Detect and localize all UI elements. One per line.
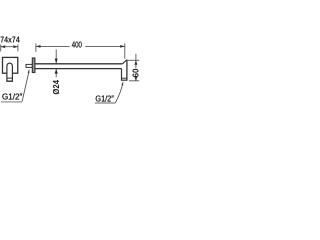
front view: arm tube with outlet drop seen end-on (stadium shape): [7, 63, 12, 81]
side view: outlet bottom cap: [121, 79, 127, 81]
leader G1/2 right arrowhead: [121, 81, 123, 85]
dimension 60: lower line segment: [135, 78, 137, 81]
front view: outlet end cap: [6, 80, 12, 82]
side view: outlet left edge: [121, 69, 123, 81]
dimension 74x74: line: [1, 46, 18, 48]
side view: wall supply stub G1/2: [26, 64, 32, 67]
dimension 74x74: right arrow: [13, 45, 18, 48]
dimension 74x74: left arrow: [1, 45, 6, 48]
dimension D24: lower line: [55, 69, 57, 77]
dimension 400: right extension line: [124, 43, 126, 58]
svg-text:G1/2″: G1/2″: [95, 95, 114, 104]
side view: arm tube bottom line: [35, 68, 121, 70]
dimension 400: line right segment: [85, 45, 125, 47]
leader G1/2 left line: [22, 72, 29, 102]
front view: outlet thread band: [7, 77, 12, 79]
svg-text:G1/2″: G1/2″: [2, 93, 22, 102]
dimension 400: right arrow: [120, 45, 125, 48]
front view: square escutcheon plate: [3, 57, 18, 73]
label G1/2 left underline: [1, 101, 22, 103]
dimension D24: lower arrow pointing up: [55, 69, 58, 74]
dimension D24: upper arrow pointing down: [55, 59, 58, 64]
side view: escutcheon plate (edge-on, filled): [32, 58, 35, 73]
side view: outlet right edge: [126, 60, 128, 81]
svg-text:74x74: 74x74: [0, 35, 20, 44]
dimension 60: upper line segment: [135, 54, 137, 68]
svg-text:60: 60: [132, 68, 141, 78]
dimension 60: down arrow: [134, 77, 137, 81]
dimension 74x74: right extension line: [17, 44, 19, 51]
side view: arm tube top line: [35, 63, 122, 65]
leader G1/2 right line: [115, 83, 123, 103]
dimension 74x74: left extension line: [0, 44, 2, 51]
dimension 400: line left segment: [36, 45, 70, 47]
side view: outlet thread band: [122, 77, 127, 79]
dimension 60: bottom extension line: [129, 80, 139, 82]
svg-text:400: 400: [72, 40, 83, 49]
dimension 400: left arrow: [36, 45, 41, 48]
dimension 60: up arrow: [134, 60, 137, 64]
side view: elbow 3D top edge diagonal: [122, 60, 127, 64]
dimension D24: upper line: [55, 49, 57, 63]
leader G1/2 left arrowhead: [28, 69, 30, 73]
svg-text:Ø24: Ø24: [52, 79, 61, 94]
label G1/2 right underline: [95, 102, 115, 104]
dimension 60: top extension line: [127, 59, 140, 61]
dimension 400: left extension line: [35, 43, 37, 51]
